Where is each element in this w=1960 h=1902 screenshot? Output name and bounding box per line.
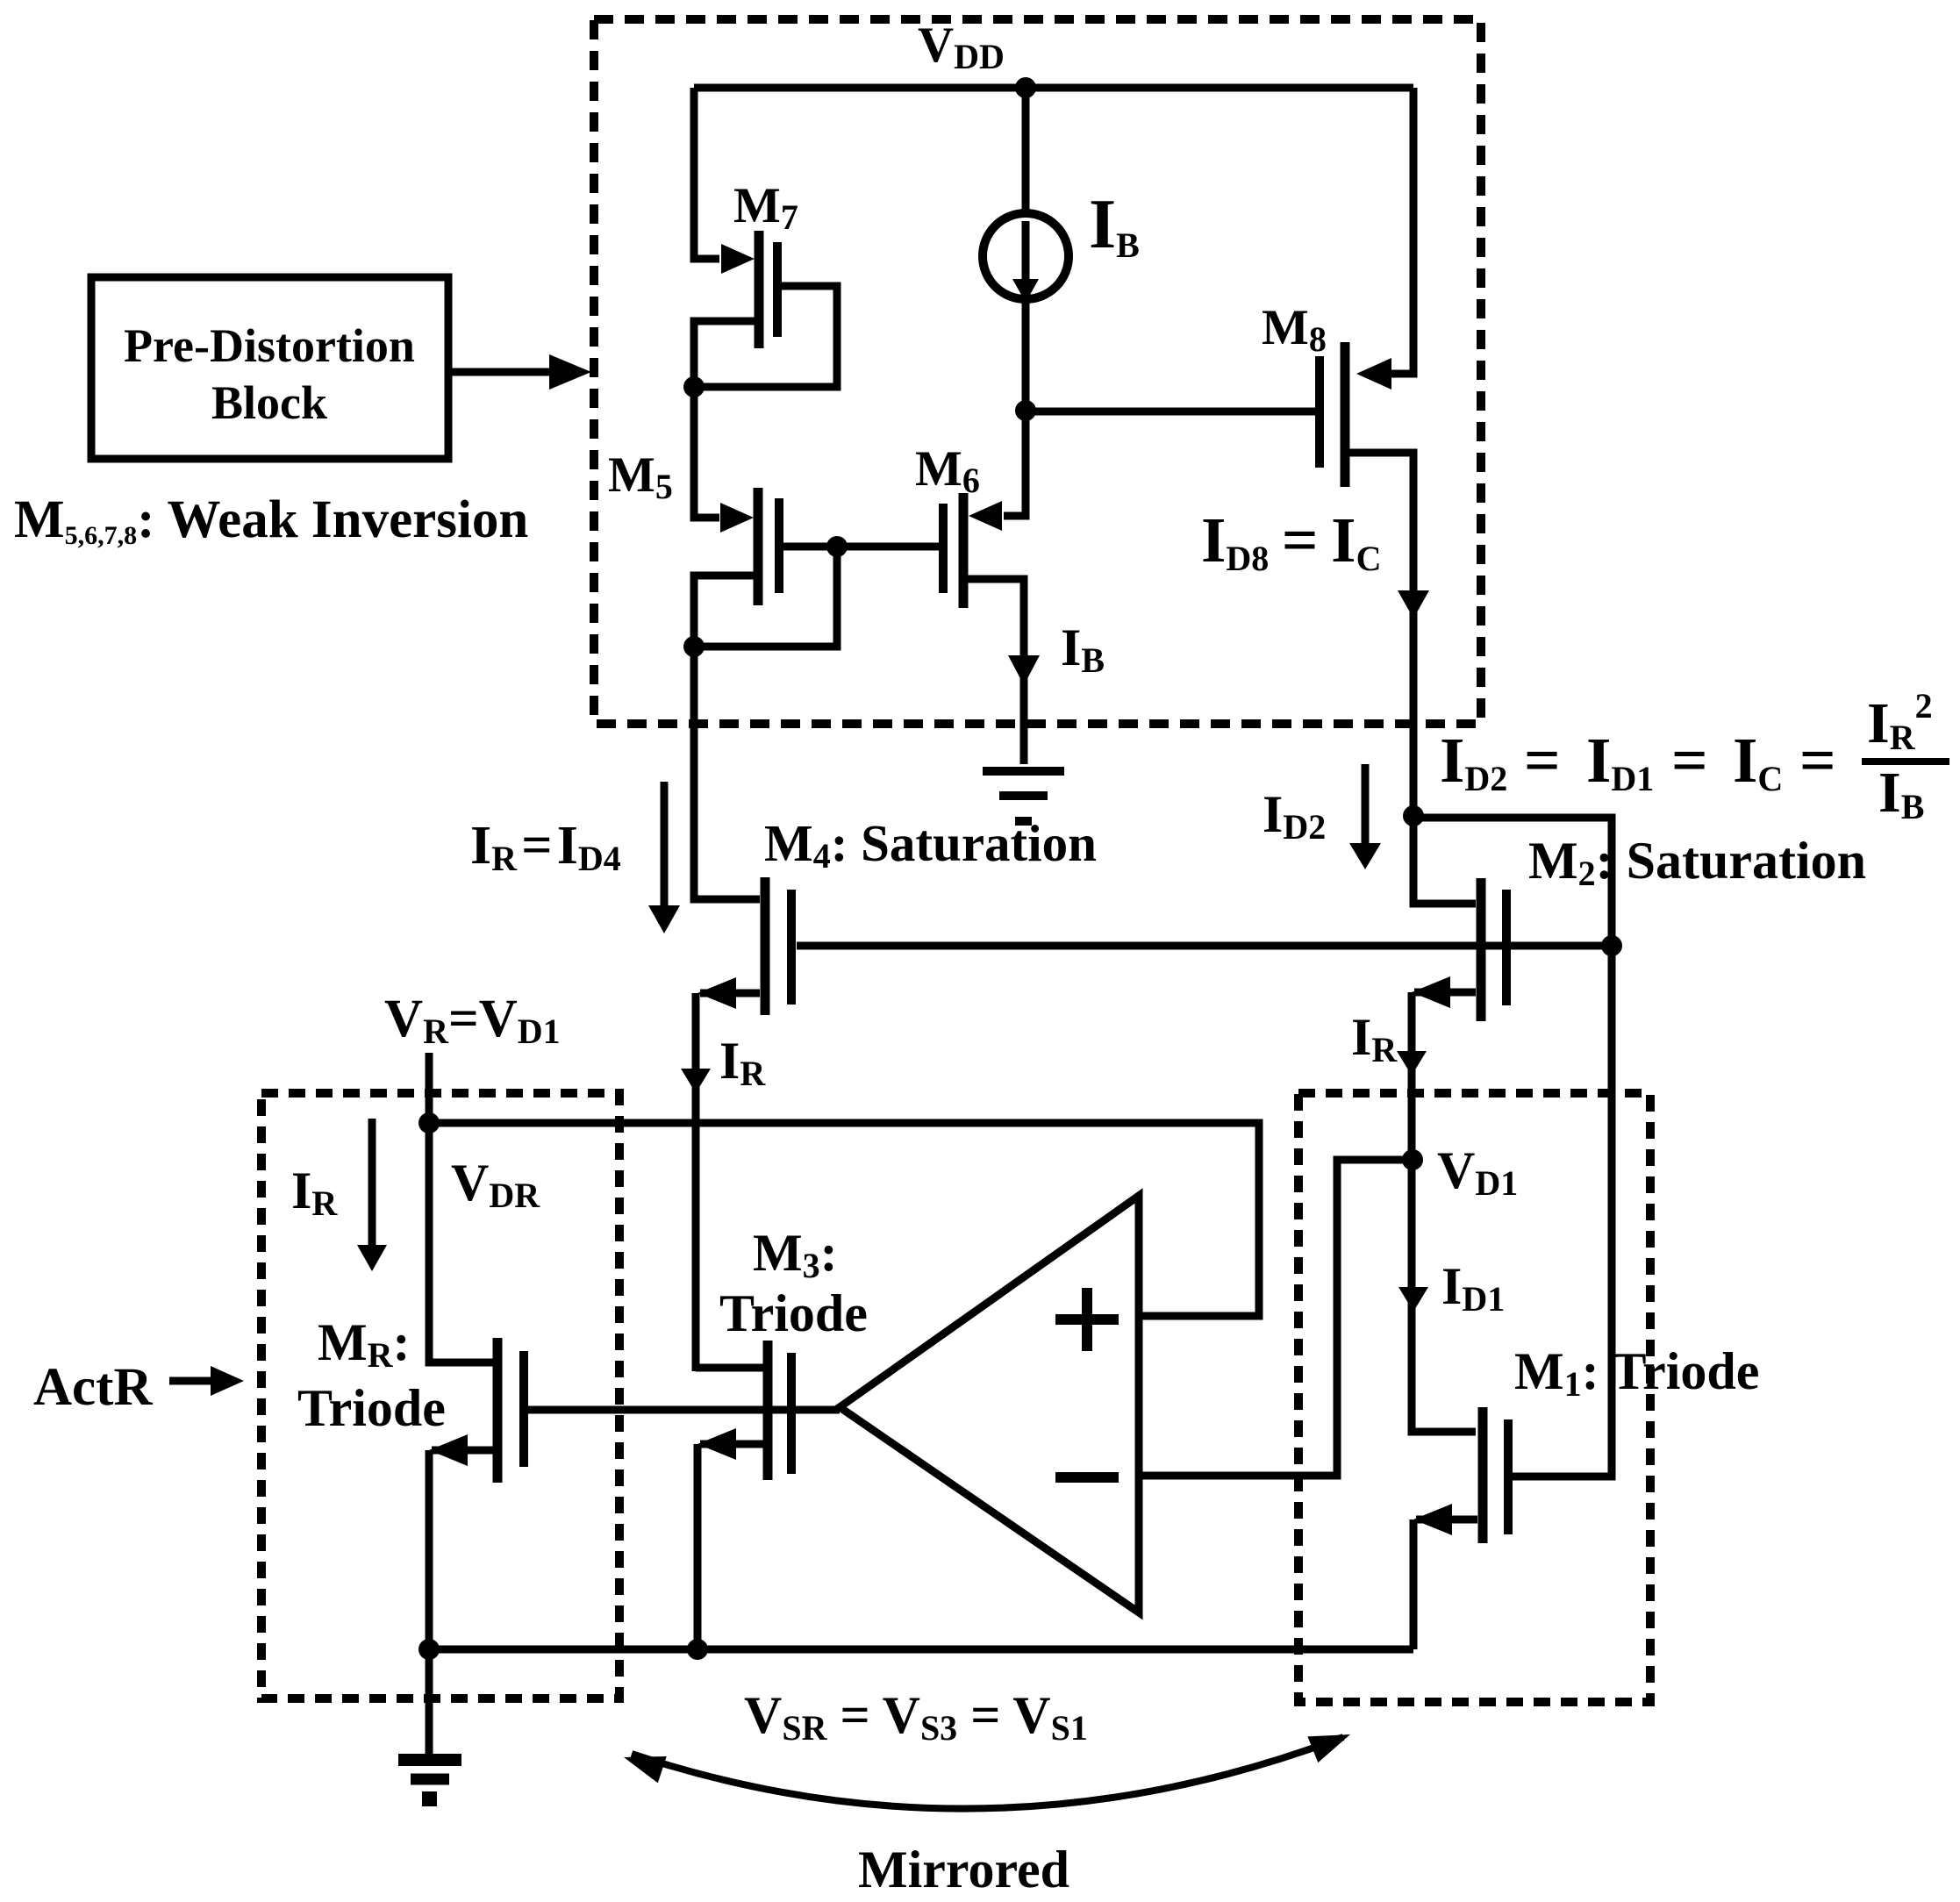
node ID2 junction: [1403, 805, 1424, 826]
label M4: Saturation: [764, 814, 1097, 876]
label ActR: [33, 1358, 153, 1417]
op-amp U1 (triangle, output to left): [840, 1196, 1139, 1612]
wire: M2 source down to M1 drain: [1412, 992, 1476, 1432]
label Mirrored: [858, 1841, 1069, 1898]
arrow IB current (on ground stem): [1008, 655, 1040, 685]
wire: MR source lead: [429, 1434, 494, 1466]
label VDR: [451, 1154, 540, 1215]
transistor M8: [1320, 342, 1345, 487]
wire: MR/M3 common gate to op-amp output: [527, 1406, 840, 1414]
label VDD: [918, 18, 1005, 76]
label ID2 with arrow: [1263, 764, 1381, 869]
label M7: [733, 178, 798, 237]
node VR junction: [418, 1112, 440, 1133]
svg-text:=: =: [1799, 725, 1836, 796]
ground (below IB): [983, 771, 1064, 821]
wire: M1 source lead: [1413, 1504, 1477, 1535]
svg-text:Pre-Distortion: Pre-Distortion: [124, 319, 415, 372]
wire: pre-distortion arrow into core box: [448, 354, 591, 390]
wire: VDD to IB source: [1022, 88, 1030, 213]
node M5 source junction: [683, 636, 705, 657]
transistor M4: [765, 877, 791, 1015]
current source IB (circle with down arrow): [983, 213, 1069, 303]
node IB/M6/M8 junction: [1015, 400, 1036, 421]
wire: VR node to op-amp + input: [429, 1123, 1259, 1316]
node VD1 junction: [1402, 1149, 1423, 1170]
wire: MR source down to ground rail: [426, 1450, 433, 1649]
label IB (top): [1089, 186, 1140, 265]
dashed box: weak-inversion core (M5-M8): [594, 19, 1481, 724]
transistor M6: [943, 493, 963, 608]
svg-text:Mirrored: Mirrored: [858, 1841, 1069, 1898]
wire: IB node down to M6 drain: [969, 411, 1026, 531]
wire: gate node down to source node: [698, 547, 837, 647]
wire: bottom source rail: [429, 1646, 1413, 1654]
wire: VDD rail to M8 drain: [1356, 88, 1413, 390]
label Triode (MR): [297, 1379, 446, 1437]
label IR (inside ActR box): [291, 1162, 338, 1223]
svg-text:MR​:: MR​:: [318, 1313, 411, 1375]
label VR=VD1: [384, 990, 561, 1051]
label M3:: [753, 1224, 838, 1285]
node M3 source/rail junction: [687, 1639, 708, 1660]
wire: node to M5 drain: [694, 387, 754, 533]
svg-text:Triode: Triode: [719, 1284, 868, 1342]
wire: M6 source to ground stem: [967, 579, 1024, 764]
wire: VDD top rail: [694, 84, 1413, 92]
wire: gate node to M6 gate: [837, 543, 940, 551]
wire: IB node to M8 gate: [1026, 408, 1315, 416]
label IR = ID4: [470, 816, 621, 878]
label Triode (M3): [719, 1284, 868, 1342]
node M7 source/gate junction: [683, 376, 705, 397]
node MR source/rail junction: [418, 1639, 440, 1660]
transistor M3: [768, 1341, 791, 1480]
transistor M1: [1483, 1407, 1508, 1543]
arrow IR (below M4): [681, 1069, 711, 1093]
wire: M3 source down to rail: [694, 1444, 702, 1649]
wire: M2 gate node down to M1 gate: [1513, 946, 1612, 1477]
wire: VR stub: [426, 1053, 433, 1123]
label IR (M2 branch): [1351, 1008, 1398, 1069]
arrow ID8 current: [1398, 590, 1429, 619]
label M1: Triode: [1514, 1342, 1759, 1404]
block Pre-Distortion: [91, 277, 448, 459]
node VDD junction: [1015, 77, 1036, 98]
label M2: Saturation: [1528, 832, 1866, 893]
svg-text:=: =: [1671, 725, 1708, 796]
curved arrow Mirrored (double-headed arc): [624, 1734, 1350, 1809]
wire: VDD drop to M7 drain: [694, 88, 755, 274]
label IB (below M6): [1061, 619, 1105, 680]
wire: common gate line M4-M2: [797, 942, 1612, 950]
wire: M1 source down to rail: [1410, 1519, 1418, 1649]
wire: rail to left ground: [426, 1649, 433, 1755]
arrow ID1 current: [1398, 1287, 1428, 1312]
wire: M5 gate to common gate node: [783, 543, 837, 551]
wire: op-amp + input lead: [1139, 1312, 1259, 1320]
arrow IR (M2 branch): [1397, 1051, 1427, 1076]
transistor MR: [497, 1338, 524, 1483]
label M8: [1262, 300, 1327, 359]
label IR (below M4): [719, 1032, 766, 1093]
node M5/M6 gate junction: [826, 536, 848, 557]
dashed box: M1 triode cell: [1298, 1093, 1650, 1702]
wire: M7 gate loop to node: [702, 286, 837, 387]
label VSR = VS3 = VS1: [744, 1686, 1088, 1748]
label ID1: [1441, 1257, 1505, 1319]
wire: IB to M6/M8 gate node: [1022, 300, 1030, 519]
svg-text:ActR: ActR: [33, 1358, 153, 1417]
dashed box: ActR (MR): [261, 1093, 619, 1698]
svg-text:M1​: Triode: M1​: Triode: [1514, 1342, 1759, 1404]
label VD1: [1437, 1141, 1518, 1203]
transistor M5: [758, 488, 779, 605]
label ID8 = IC: [1201, 504, 1381, 578]
label M5,6,7,8: Weak Inversion: [14, 490, 528, 550]
wire: M8 source down to ID2 node: [1348, 453, 1413, 816]
wire: M5 source to node: [694, 576, 754, 647]
node M2 gate/feedback junction: [1601, 935, 1622, 956]
wire: M4 source down to M3 drain: [692, 993, 700, 1371]
svg-text:Block: Block: [211, 376, 327, 429]
wire: M5 source node down to M4 drain: [694, 647, 760, 899]
wire: M4 source lead: [697, 977, 760, 1009]
arrow IR=ID4 (long): [648, 782, 680, 933]
wire: M3 source lead: [697, 1428, 763, 1460]
wire: M2 source lead: [1412, 976, 1476, 1008]
wire: M3 drain lead: [696, 1364, 763, 1372]
svg-text:M3​:: M3​:: [753, 1224, 838, 1285]
label MR:: [318, 1313, 411, 1375]
transistor M2: [1481, 878, 1506, 1021]
wire: M7 source to node: [694, 321, 755, 383]
transistor M7: [759, 231, 777, 348]
arrow IR (inside ActR box): [357, 1119, 387, 1271]
label M5: [608, 447, 673, 506]
label equation ID2 = ID1 = IC = IR^2/IB: [1440, 686, 1949, 826]
svg-text:Triode: Triode: [297, 1379, 446, 1437]
arrow ActR pointer: [169, 1366, 244, 1396]
svg-text:=: =: [1524, 725, 1561, 796]
wire: VR node down to MR drain: [429, 1123, 493, 1362]
label M6: [915, 441, 980, 500]
ground (bottom left): [398, 1760, 461, 1806]
wire: ID2 node right and down to gate node: [1413, 818, 1612, 946]
wire: ID2 node to M2 drain: [1413, 816, 1476, 904]
wire: op-amp - input to VD1 node: [1139, 1160, 1404, 1476]
